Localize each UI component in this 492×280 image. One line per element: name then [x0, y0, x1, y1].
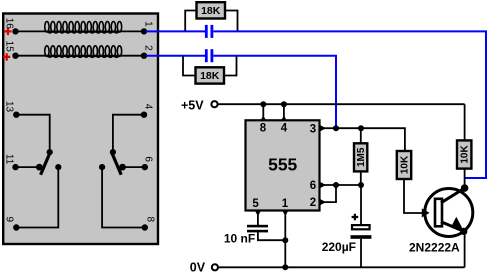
junction dot pin6/pin2 — [333, 182, 339, 188]
junction dot pin3/blue — [333, 125, 339, 131]
svg-text:6: 6 — [310, 180, 316, 192]
555 pin 8 connector triangle — [260, 116, 267, 135]
relay pin 16 — [3, 18, 18, 35]
svg-text:4: 4 — [281, 123, 288, 135]
transistor Q1 emitter wire — [464, 231, 466, 267]
wire rail to 555 pin 4 — [283, 104, 285, 117]
svg-text:13: 13 — [3, 101, 14, 113]
relay pin 11 — [3, 154, 18, 170]
relay pin 2 — [141, 45, 154, 59]
relay pin 4 — [141, 104, 154, 118]
capacitor C4 220uF wire top — [360, 185, 362, 224]
svg-text:8: 8 — [145, 217, 156, 223]
junction dot rail/pin1 — [282, 264, 288, 270]
switch SW1 pivot dot — [36, 164, 43, 171]
resistor R1 leads — [185, 11, 237, 31]
junction dot collector — [461, 184, 469, 192]
svg-text:+5V: +5V — [181, 98, 204, 112]
blue net pin2 segment left — [146, 55, 205, 57]
polarity mark + (pin 16) — [4, 28, 11, 35]
capacitor C4 220uF plates — [351, 225, 372, 239]
relay pin 6 — [142, 156, 154, 170]
+5V rail — [218, 103, 465, 105]
capacitor C2 plates — [205, 49, 213, 62]
resistor R1 18K — [197, 2, 226, 18]
relay pin 1 — [141, 21, 154, 34]
junction dot rail/pin8 — [260, 101, 266, 107]
capacitor C3 10nF plates — [247, 225, 268, 233]
svg-text:8: 8 — [260, 123, 267, 135]
polarity mark + (pin 15) — [3, 53, 10, 60]
switch SW2 contact dot (to 4) — [110, 149, 116, 155]
wire pin6 to pivot — [123, 166, 145, 168]
svg-text:3: 3 — [310, 123, 316, 135]
svg-text:10K: 10K — [460, 145, 471, 164]
relay pin 8 — [142, 217, 156, 231]
switch SW1 open contact dot — [55, 164, 61, 170]
svg-text:2: 2 — [310, 197, 316, 209]
transistor Q1 emitter line — [441, 222, 464, 232]
resistor R5 10K leads — [464, 104, 466, 188]
coil L2 wire — [16, 55, 144, 57]
blue net pin1 segment right to transistor — [213, 31, 486, 178]
svg-text:1M5: 1M5 — [356, 147, 367, 167]
svg-text:0V: 0V — [190, 261, 206, 275]
+5V terminal — [181, 98, 218, 112]
0V rail — [218, 266, 465, 268]
555 pin 6 stub — [310, 180, 361, 192]
switch SW1 armature — [41, 152, 51, 175]
coil L2 loops — [45, 46, 122, 57]
wire rail to 555 pin 8 — [262, 104, 264, 117]
svg-text:10K: 10K — [400, 155, 411, 174]
wire pin11 to pivot — [16, 166, 40, 168]
svg-text:4: 4 — [143, 104, 154, 110]
capacitor C1 plates — [205, 25, 213, 38]
wire pin13 to contact — [16, 115, 49, 152]
transistor Q1 base bar — [435, 199, 442, 227]
svg-text:1: 1 — [143, 21, 154, 27]
resistor R3 1M5 leads — [360, 128, 362, 185]
switch SW1 contact dot (to 13) — [47, 149, 53, 155]
coil L1 wire — [16, 30, 144, 32]
555 pin 3 stub — [310, 123, 336, 135]
transistor Q1 collector line — [441, 189, 464, 203]
svg-text:2: 2 — [143, 45, 154, 51]
transistor Q1 circle — [425, 189, 473, 237]
svg-text:16: 16 — [3, 18, 14, 30]
resistor R4 10K leads — [404, 151, 425, 214]
svg-text:1: 1 — [282, 198, 289, 210]
svg-text:5: 5 — [252, 198, 259, 210]
555 pin 5 stub — [252, 198, 260, 225]
svg-text:2N2222A: 2N2222A — [409, 240, 460, 254]
blue net pin1 segment left — [146, 30, 205, 32]
555 pin 2 stub — [310, 185, 336, 209]
svg-text:555: 555 — [268, 155, 297, 175]
coil L1 loops — [45, 22, 122, 33]
transistor Q1 base arrow — [422, 208, 430, 217]
svg-text:15: 15 — [3, 41, 14, 53]
junction dot rail/pin4 — [281, 101, 287, 107]
svg-text:9: 9 — [3, 217, 14, 223]
svg-text:11: 11 — [3, 154, 14, 165]
switch SW2 armature — [111, 152, 121, 175]
555 pin 1 stub — [282, 198, 289, 267]
blue net pin2 segment right to 555 pin3 — [213, 56, 336, 129]
capacitor C3 bottom wire to pin1 — [258, 232, 285, 240]
transistor Q1 emitter dot — [460, 228, 467, 235]
wire pin4 to contact — [113, 115, 144, 152]
junction dot C3/pin1 — [282, 237, 288, 243]
555 pin 4 connector triangle — [281, 116, 288, 135]
wire pin3 to R3/R4 — [336, 128, 405, 150]
svg-text:18K: 18K — [201, 5, 221, 17]
resistor R5 10K — [457, 140, 471, 168]
relay pin 15 — [3, 41, 18, 59]
capacitor C4 plus sign — [352, 214, 359, 221]
junction dot pin6/R3 — [358, 182, 364, 188]
relay pin 13 — [3, 101, 19, 118]
svg-text:18K: 18K — [200, 70, 220, 82]
resistor R2 18K — [196, 67, 225, 83]
resistor R3 1M5 — [354, 143, 367, 171]
switch SW2 pivot dot — [119, 164, 126, 171]
transistor Q1 emitter arrow — [451, 217, 464, 232]
capacitor C4 wire bottom — [360, 239, 362, 267]
svg-text:220µF: 220µF — [322, 240, 356, 254]
resistor R4 10K — [397, 151, 411, 179]
IC U1 555 body — [246, 120, 320, 210]
switch SW2 open contact dot — [99, 164, 105, 170]
relay RL1 body — [3, 14, 158, 245]
junction dot pin3/R3 — [358, 125, 364, 131]
wire pin8 to open contact — [102, 167, 145, 227]
relay pin 9 — [3, 217, 19, 231]
wire pin9 to open contact — [16, 167, 58, 227]
0V terminal — [190, 261, 218, 275]
resistor R2 leads — [183, 56, 237, 75]
svg-text:6: 6 — [143, 156, 154, 162]
svg-text:10 nF: 10 nF — [224, 232, 255, 246]
